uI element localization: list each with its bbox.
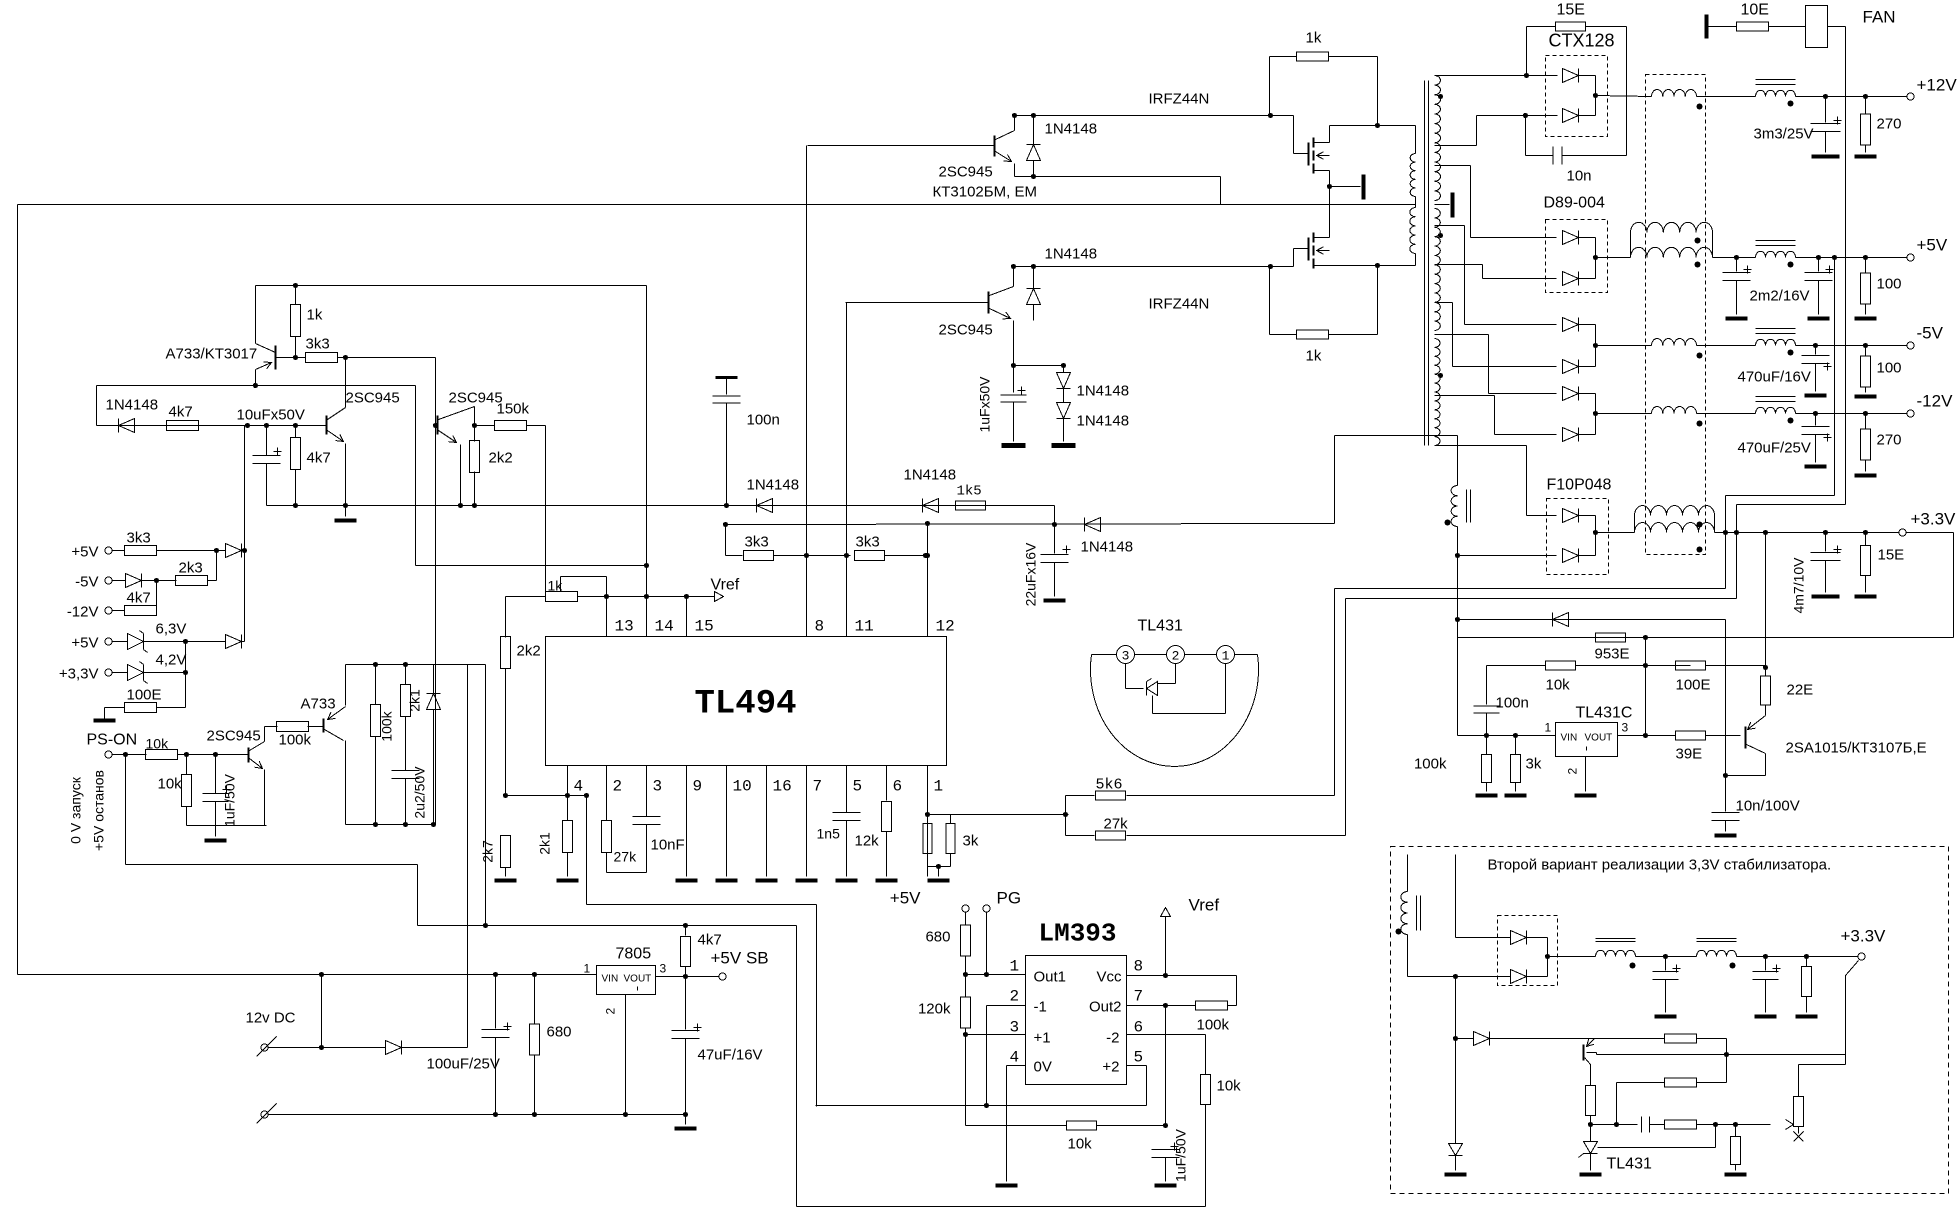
svg-text:3k: 3k [963,833,979,850]
svg-text:1uF/50V: 1uF/50V [1173,1128,1189,1182]
svg-text:2SC945: 2SC945 [346,390,400,407]
svg-text:10k: 10k [158,776,183,793]
svg-text:+3.3V: +3.3V [1911,510,1957,529]
svg-text:+5V: +5V [890,889,921,908]
svg-text:6: 6 [1134,1019,1144,1037]
svg-text:270: 270 [1877,116,1902,133]
svg-text:100uF/25V: 100uF/25V [427,1056,500,1073]
svg-text:1n5: 1n5 [817,826,841,842]
svg-text:1: 1 [1222,649,1230,664]
svg-text:+5V: +5V [71,635,98,652]
svg-text:2SC945: 2SC945 [207,728,261,745]
svg-text:F10P048: F10P048 [1547,477,1612,494]
svg-text:8: 8 [1134,958,1144,976]
svg-text:10k: 10k [1068,1136,1093,1153]
svg-text:47uF/16V: 47uF/16V [698,1047,763,1064]
svg-text:+5V: +5V [71,544,98,561]
svg-text:1N4148: 1N4148 [1077,413,1130,430]
svg-text:3: 3 [653,778,663,796]
svg-text:2k3: 2k3 [179,560,203,577]
svg-text:39E: 39E [1676,746,1703,763]
svg-text:PS-ON: PS-ON [87,732,138,749]
svg-text:1N4148: 1N4148 [904,467,957,484]
svg-text:1N4148: 1N4148 [1045,246,1098,263]
svg-text:150k: 150k [497,401,530,418]
svg-text:LM393: LM393 [1038,919,1116,949]
svg-text:1N4148: 1N4148 [106,397,159,414]
svg-text:3: 3 [1122,649,1130,664]
svg-text:1N4148: 1N4148 [747,477,800,494]
svg-text:11: 11 [855,618,874,636]
svg-text:100k: 100k [379,710,395,741]
svg-text:15E: 15E [1878,547,1905,564]
svg-text:10uFx50V: 10uFx50V [237,407,305,424]
svg-text:27k: 27k [1104,816,1129,833]
svg-text:470uF/16V: 470uF/16V [1738,369,1811,386]
svg-text:12v DC: 12v DC [246,1010,296,1027]
svg-text:3k3: 3k3 [745,534,769,551]
svg-text:1N4148: 1N4148 [1077,383,1130,400]
svg-text:4: 4 [574,778,584,796]
svg-text:3: 3 [660,962,667,976]
svg-text:3: 3 [1010,1019,1020,1037]
svg-text:12: 12 [936,618,955,636]
svg-text:100: 100 [1877,276,1902,293]
svg-text:1uFx50V: 1uFx50V [977,376,993,433]
svg-text:2SA1015/КТ3107Б,Е: 2SA1015/КТ3107Б,Е [1786,740,1927,757]
svg-text:2SC945: 2SC945 [449,390,503,407]
svg-text:2k7: 2k7 [480,840,496,863]
svg-text:15E: 15E [1557,2,1585,19]
svg-text:TL431C: TL431C [1576,705,1633,722]
svg-text:2u2/50V: 2u2/50V [412,766,428,819]
svg-text:3k3: 3k3 [856,534,880,551]
svg-text:+5V останов: +5V останов [91,770,107,851]
svg-text:3k3: 3k3 [306,336,330,353]
svg-text:-12V: -12V [67,604,99,621]
svg-text:1k: 1k [307,307,323,324]
svg-text:10: 10 [733,778,752,796]
svg-text:1N4148: 1N4148 [1045,121,1098,138]
svg-text:1: 1 [934,778,944,796]
svg-text:D89-004: D89-004 [1544,195,1605,212]
svg-text:PG: PG [997,889,1022,908]
svg-text:4k7: 4k7 [698,932,722,949]
svg-text:12k: 12k [855,833,880,850]
svg-text:1k5: 1k5 [957,484,982,500]
svg-text:3: 3 [1622,721,1629,735]
svg-text:2: 2 [1172,649,1180,664]
svg-text:4m7/10V: 4m7/10V [1791,557,1807,614]
svg-text:16: 16 [773,778,792,796]
svg-text:2: 2 [613,778,623,796]
svg-text:6: 6 [893,778,903,796]
svg-text:5: 5 [1134,1049,1144,1067]
svg-text:A733/KT3017: A733/KT3017 [166,346,258,363]
svg-text:1: 1 [584,962,591,976]
svg-text:Out2: Out2 [1089,999,1122,1016]
svg-text:100n: 100n [1496,695,1529,712]
svg-text:-2: -2 [1106,1030,1119,1047]
svg-text:VIN: VIN [602,974,619,985]
svg-text:14: 14 [655,618,674,636]
svg-text:15: 15 [695,618,714,636]
svg-text:TL494: TL494 [694,686,796,724]
svg-text:4,2V: 4,2V [156,652,187,669]
svg-text:Vcc: Vcc [1096,969,1122,986]
svg-text:27k: 27k [614,849,638,865]
svg-text:2k2: 2k2 [489,450,513,467]
svg-text:10nF: 10nF [651,837,685,854]
svg-text:VIN: VIN [1561,733,1578,744]
svg-text:13: 13 [615,618,634,636]
svg-text:2k1: 2k1 [407,689,423,712]
svg-text:680: 680 [547,1024,572,1041]
svg-text:2k1: 2k1 [537,832,553,855]
svg-text:100k: 100k [279,732,312,749]
svg-text:Vref: Vref [711,577,740,594]
svg-text:9: 9 [693,778,703,796]
svg-text:8: 8 [815,618,825,636]
svg-text:1: 1 [1545,721,1552,735]
svg-text:2: 2 [604,1008,618,1015]
svg-text:IRFZ44N: IRFZ44N [1149,296,1210,313]
svg-text:22uFx16V: 22uFx16V [1023,542,1039,606]
svg-text:3k3: 3k3 [127,530,151,547]
svg-text:5: 5 [853,778,863,796]
svg-text:4k7: 4k7 [169,404,193,421]
svg-text:270: 270 [1877,432,1902,449]
svg-text:4: 4 [1010,1049,1020,1067]
svg-text:+5V SB: +5V SB [711,949,769,968]
svg-text:IRFZ44N: IRFZ44N [1149,91,1210,108]
svg-text:0V: 0V [1034,1059,1052,1076]
svg-text:FAN: FAN [1863,8,1896,27]
svg-text:2SC945: 2SC945 [939,322,993,339]
svg-text:100: 100 [1877,360,1902,377]
svg-text:VOUT: VOUT [624,974,652,985]
svg-text:Второй вариант реализации 3,3V: Второй вариант реализации 3,3V стабилиза… [1488,857,1832,874]
svg-text:1: 1 [1010,958,1020,976]
svg-text:10k: 10k [1546,677,1571,694]
svg-text:10n: 10n [1567,168,1592,185]
svg-text:-1: -1 [1034,999,1047,1016]
svg-text:7: 7 [813,778,823,796]
svg-text:10E: 10E [1741,2,1769,19]
svg-text:22E: 22E [1787,682,1814,699]
svg-text:1k: 1k [1306,30,1322,47]
svg-text:КТ3102БМ, ЕМ: КТ3102БМ, ЕМ [933,184,1037,201]
svg-text:6,3V: 6,3V [156,621,187,638]
svg-text:2k2: 2k2 [517,643,541,660]
svg-text:680: 680 [925,929,950,946]
svg-text:7805: 7805 [616,946,652,963]
svg-text:3k: 3k [1526,756,1542,773]
svg-text:1uF/50V: 1uF/50V [222,773,238,827]
svg-text:100E: 100E [1676,677,1711,694]
svg-text:+1: +1 [1034,1030,1051,1047]
svg-text:470uF/25V: 470uF/25V [1738,440,1811,457]
svg-text:TL431: TL431 [1138,618,1183,635]
svg-text:-5V: -5V [75,574,98,591]
svg-text:100n: 100n [747,412,780,429]
svg-text:-12V: -12V [1917,392,1954,411]
svg-text:+12V: +12V [1917,76,1958,95]
svg-text:120k: 120k [918,1001,951,1018]
svg-text:953E: 953E [1595,646,1630,663]
svg-text:2: 2 [1566,768,1580,775]
svg-text:TL431: TL431 [1607,1156,1652,1173]
svg-text:Out1: Out1 [1034,969,1067,986]
svg-text:2SC945: 2SC945 [939,164,993,181]
svg-text:0 V запуск: 0 V запуск [68,776,84,844]
svg-text:+3.3V: +3.3V [1841,927,1887,946]
svg-text:100k: 100k [1414,756,1447,773]
svg-text:100k: 100k [1197,1017,1230,1034]
svg-text:10n/100V: 10n/100V [1736,798,1800,815]
svg-text:4k7: 4k7 [307,450,331,467]
svg-text:2: 2 [1010,988,1020,1006]
svg-text:CTX128: CTX128 [1549,31,1615,51]
svg-text:10k: 10k [1217,1078,1242,1095]
svg-text:10k: 10k [146,736,170,752]
svg-text:4k7: 4k7 [127,590,151,607]
svg-text:+5V: +5V [1917,236,1948,255]
svg-text:+3,3V: +3,3V [59,666,99,683]
svg-text:1N4148: 1N4148 [1081,539,1134,556]
svg-text:-5V: -5V [1917,324,1944,343]
svg-text:+2: +2 [1102,1059,1119,1076]
svg-text:100E: 100E [127,687,162,704]
svg-text:5k6: 5k6 [1096,777,1123,794]
svg-text:3m3/25V: 3m3/25V [1754,126,1814,143]
svg-text:1k: 1k [1306,348,1322,365]
svg-text:2m2/16V: 2m2/16V [1750,288,1810,305]
svg-text:A733: A733 [301,696,336,713]
svg-text:7: 7 [1134,988,1144,1006]
svg-text:VOUT: VOUT [1585,733,1613,744]
svg-text:Vref: Vref [1189,896,1220,915]
